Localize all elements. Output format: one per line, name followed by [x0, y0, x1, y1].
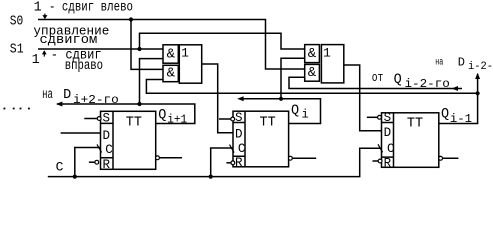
svg-text:i-2-го: i-2-го — [405, 77, 450, 91]
svg-text:вправо: вправо — [65, 59, 103, 74]
svg-text:1: 1 — [323, 46, 331, 61]
svg-text:&: & — [167, 46, 176, 62]
svg-text:TT: TT — [260, 115, 276, 130]
svg-text:D: D — [458, 55, 465, 69]
svg-text:- сдвиг влево: - сдвиг влево — [49, 1, 133, 16]
svg-text:TT: TT — [407, 117, 423, 132]
svg-text:R: R — [235, 156, 243, 170]
svg-text:&: & — [167, 65, 176, 81]
svg-text:1: 1 — [181, 46, 189, 61]
svg-text:1: 1 — [34, 1, 42, 16]
svg-text:Q: Q — [291, 104, 299, 119]
svg-text:S0: S0 — [10, 14, 23, 29]
svg-text:на: на — [435, 57, 443, 68]
svg-text:i-2-: i-2- — [468, 61, 493, 73]
svg-text:&: & — [308, 46, 317, 62]
svg-text:C: C — [105, 143, 113, 157]
svg-text:C: C — [238, 142, 246, 156]
svg-text:&: & — [308, 65, 317, 81]
svg-text:TT: TT — [126, 115, 142, 130]
svg-text:C: C — [387, 142, 395, 156]
svg-text:D: D — [63, 88, 71, 103]
svg-text:R: R — [102, 158, 110, 172]
svg-text:i-1: i-1 — [450, 112, 472, 126]
svg-text:от: от — [372, 71, 384, 85]
svg-text:i+1: i+1 — [167, 112, 187, 126]
svg-text:Q: Q — [158, 108, 166, 123]
svg-text:S: S — [102, 111, 110, 125]
svg-text:D: D — [384, 126, 392, 140]
svg-text:i: i — [302, 108, 309, 122]
svg-text:D: D — [235, 128, 243, 142]
svg-text:на: на — [42, 88, 53, 103]
svg-text:i+2-го: i+2-го — [73, 93, 119, 107]
svg-text:1: 1 — [32, 53, 40, 68]
svg-text:C: C — [56, 160, 64, 175]
svg-text:Q: Q — [394, 73, 402, 88]
svg-text:S: S — [235, 111, 243, 125]
svg-text:S: S — [384, 111, 392, 125]
svg-text:R: R — [384, 156, 392, 170]
svg-text:D: D — [102, 129, 110, 143]
svg-text:S1: S1 — [10, 42, 24, 57]
svg-text:Q: Q — [441, 107, 449, 122]
svg-text:сдвигом: сдвигом — [40, 32, 98, 47]
